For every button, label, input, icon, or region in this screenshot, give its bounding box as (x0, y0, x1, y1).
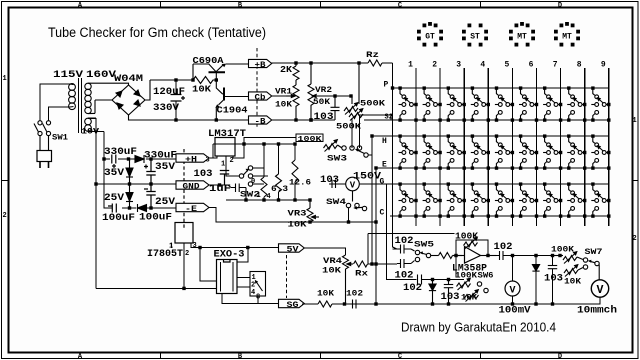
svg-text:GT: GT (425, 33, 435, 42)
svg-text:MT: MT (517, 33, 527, 42)
svg-text:+B: +B (255, 61, 266, 70)
svg-text:10mmch: 10mmch (577, 305, 617, 317)
pin column wire 8 (584, 68, 586, 226)
svg-text:D: D (558, 353, 562, 360)
bus H (372, 135, 609, 137)
tube socket MT (554, 22, 580, 47)
svg-text:1: 1 (408, 61, 413, 70)
svg-text:330uF: 330uF (144, 151, 177, 162)
wire 10V winding to doubler (96, 118, 176, 288)
svg-text:160V: 160V (86, 70, 116, 81)
bus P (393, 87, 609, 89)
tag GND (176, 181, 209, 192)
resistor to opamp (439, 253, 453, 259)
border tick sides (2, 180, 639, 182)
wire doubler rail bottom (104, 159, 176, 208)
svg-text:3: 3 (193, 242, 197, 250)
svg-text:6: 6 (529, 61, 534, 70)
wire matrix left vertical E down (375, 168, 377, 304)
switch SW1 (34, 121, 51, 136)
svg-text:Rz: Rz (366, 51, 379, 60)
pin column wire 7 (560, 68, 562, 226)
wire P feed vertical (393, 63, 398, 249)
svg-text:103: 103 (194, 169, 213, 180)
svg-text:500K: 500K (360, 100, 385, 109)
svg-text:115V: 115V (53, 70, 83, 81)
doubler junction dots (94, 78, 218, 209)
wire 5V to VR4 (304, 248, 346, 255)
wire heater feed y144 (213, 143, 295, 145)
svg-text:1: 1 (221, 161, 225, 169)
tag -B (249, 116, 272, 126)
wire -B rail y120 (271, 119, 335, 121)
wire sense y279.5 (416, 279, 464, 281)
bus G (387, 183, 609, 185)
svg-text:102: 102 (346, 290, 363, 299)
wire +B rail y63 (271, 62, 311, 64)
wire rail -B y120 (150, 119, 249, 121)
svg-text:25V: 25V (155, 197, 175, 208)
wire Cb rail y96 (271, 95, 286, 97)
svg-text:LM317T: LM317T (208, 129, 246, 140)
svg-text:P: P (384, 81, 389, 90)
svg-text:4: 4 (251, 289, 255, 297)
pin column wire 2 (439, 68, 441, 226)
capacitor 120uF 330V (171, 80, 186, 120)
diode D2 down (126, 159, 133, 184)
svg-text:100K: 100K (551, 246, 574, 255)
wire doubler rail top (104, 158, 176, 160)
svg-text:10K: 10K (317, 290, 334, 299)
svg-text:SG: SG (287, 301, 299, 310)
svg-text:Cb: Cb (255, 93, 266, 102)
potentiometer VR1 10K (293, 85, 299, 120)
svg-text:120uF: 120uF (153, 87, 185, 98)
svg-text:8: 8 (577, 61, 582, 70)
svg-text:EXO-3: EXO-3 (214, 250, 245, 261)
meter V 100mV (505, 256, 520, 305)
resistor Rx (354, 261, 368, 267)
diode D3 down lower (126, 184, 133, 208)
capacitor 100uF series bottom (108, 204, 116, 213)
svg-text:102: 102 (403, 283, 422, 294)
pin column wire 1 (415, 68, 417, 226)
wire y232 horizontal (368, 233, 455, 235)
svg-text:1: 1 (633, 117, 637, 125)
capacitor 330uF 35V series (112, 155, 116, 169)
svg-text:2: 2 (3, 212, 7, 220)
svg-text:5V: 5V (287, 245, 299, 254)
dashed separator line (256, 48, 258, 128)
wire bridge dc out (129, 80, 151, 120)
svg-text:2K: 2K (280, 65, 293, 75)
wire SW1 to transformer (40, 84, 65, 121)
svg-text:103: 103 (441, 292, 460, 303)
wire matrix left vertical G down (387, 184, 417, 280)
svg-text:3: 3 (456, 61, 461, 70)
svg-text:100uF: 100uF (139, 213, 172, 224)
potentiometer VR2 50K (308, 63, 314, 120)
svg-text:MT: MT (562, 33, 572, 42)
svg-text:12.6: 12.6 (289, 179, 311, 188)
resistor 100K boxed variable (296, 134, 323, 142)
svg-text:I7805T: I7805T (147, 249, 183, 260)
svg-text:10K: 10K (564, 278, 581, 287)
svg-text:-E: -E (185, 205, 197, 214)
svg-text:9: 9 (601, 61, 606, 70)
opamp LM358P (453, 247, 497, 264)
svg-text:2: 2 (633, 235, 637, 243)
svg-text:1: 1 (257, 192, 261, 200)
svg-text:Rx: Rx (355, 270, 368, 279)
resistor heater 6.3 (276, 144, 282, 200)
resistor 10K (193, 77, 216, 84)
diode clamp 2 (532, 256, 539, 305)
svg-text:2: 2 (432, 61, 437, 70)
svg-text:35V: 35V (104, 168, 124, 179)
wire transformer to bridge (93, 83, 129, 113)
svg-text:35V: 35V (155, 162, 175, 173)
tube socket GT (417, 22, 443, 47)
selector cells row H column 1-9 (398, 134, 610, 169)
wire matrix left vertical H down (371, 136, 373, 264)
pin column wire 3 (463, 68, 465, 226)
pin column wire 6 (536, 68, 538, 226)
wire GND rail to 1uF (209, 185, 231, 188)
wire +H to LM317 pin3 (209, 138, 296, 177)
pin column wire 4 (487, 68, 489, 226)
bus E (376, 167, 609, 169)
svg-text:SW7: SW7 (585, 248, 603, 257)
svg-text:4: 4 (480, 61, 485, 70)
svg-text:7: 7 (553, 61, 558, 70)
svg-text:ST: ST (470, 33, 480, 42)
bus S2 (364, 119, 609, 121)
svg-text:-B: -B (255, 117, 266, 126)
selector cells row G column 1-9 (398, 182, 610, 217)
svg-text:VR2: VR2 (315, 86, 332, 95)
bus C (390, 215, 609, 217)
dashed separator tags column (183, 149, 185, 228)
tag Cb (249, 92, 272, 102)
switch SW4 (346, 191, 366, 211)
tag +H (176, 154, 209, 165)
pin column wire 5 (511, 68, 513, 226)
tube socket MT (509, 22, 535, 47)
svg-text:C: C (398, 2, 402, 10)
wire EXO-3 to SG (222, 294, 279, 304)
border tick top (161, 2, 481, 8)
resistor 10K bottom (318, 301, 332, 307)
wire rail +raw y80 (150, 80, 249, 120)
wire LM317 pin1 adj (226, 156, 239, 176)
tag 5V (279, 244, 305, 255)
svg-text:SW1: SW1 (52, 134, 68, 143)
divider pin box 1 2 4 8 (237, 272, 266, 297)
svg-text:103: 103 (314, 112, 334, 123)
wire LM317 pin2 out (233, 138, 296, 159)
svg-text:Tube Checker for Gm check (Ten: Tube Checker for Gm check (Tentative) (48, 25, 266, 40)
svg-text:330uF: 330uF (104, 147, 137, 158)
dashed separator 5V/SG (286, 255, 288, 298)
switch SW2 (239, 166, 252, 186)
svg-text:10K: 10K (322, 267, 341, 276)
pin column numbers 1-9 (408, 61, 606, 70)
svg-text:VR3: VR3 (288, 210, 307, 219)
svg-text:VR1: VR1 (275, 88, 292, 97)
svg-text:10K: 10K (275, 101, 292, 110)
svg-text:2: 2 (185, 250, 189, 258)
svg-text:E: E (382, 161, 387, 170)
svg-text:5: 5 (504, 61, 509, 70)
svg-text:10K: 10K (192, 85, 212, 95)
svg-text:103: 103 (544, 274, 563, 285)
junction dots matrix left (357, 61, 394, 223)
tube socket ST (462, 24, 488, 47)
svg-text:GND: GND (183, 182, 200, 191)
svg-text:0: 0 (251, 178, 255, 186)
diode D1 right (135, 155, 144, 163)
resistor heater 1.4 (261, 144, 267, 200)
svg-text:C1904: C1904 (217, 106, 249, 116)
svg-text:50K: 50K (313, 98, 330, 107)
resistor Rz wire (311, 62, 393, 64)
svg-text:Drawn by GarakutaEn 2010.4: Drawn by GarakutaEn 2010.4 (401, 321, 556, 335)
svg-text:100K: 100K (298, 136, 323, 144)
svg-text:330V: 330V (153, 103, 179, 114)
junction dots heater (218, 142, 297, 201)
svg-text:100mV: 100mV (499, 306, 531, 317)
svg-text:SW5: SW5 (414, 241, 434, 250)
transformer T1 (65, 78, 104, 133)
pin column wire 9 (608, 68, 610, 226)
svg-text:500K: 500K (336, 123, 361, 132)
svg-text:SW4: SW4 (326, 198, 346, 207)
svg-text:1: 1 (3, 75, 7, 83)
svg-text:SW6: SW6 (478, 272, 494, 281)
AC plug (37, 136, 52, 168)
junction dots bottom (343, 254, 562, 306)
meter V 10mmch (553, 280, 609, 304)
svg-text:25V: 25V (104, 193, 124, 204)
svg-text:+H: +H (185, 155, 197, 164)
tag SG (279, 299, 305, 310)
capacitor 103 below VR2 (331, 96, 340, 120)
junction dots mid (294, 61, 352, 223)
wire SW3 common to H vertical (368, 154, 372, 156)
wire -E long y222 (209, 208, 376, 223)
selector cells row P column 1-9 (398, 86, 610, 121)
tag -E (176, 203, 209, 214)
svg-text:6.3: 6.3 (271, 185, 288, 194)
border tick bottom (161, 353, 481, 359)
wire doubler rail mid GND (96, 183, 176, 185)
diode D4 left (138, 204, 147, 212)
svg-text:C: C (398, 353, 402, 360)
tag +B (249, 59, 272, 69)
wire bottom heater rail y200 (226, 199, 310, 201)
svg-text:D: D (558, 2, 562, 10)
resistor Rz (368, 60, 382, 66)
switch SW3 (342, 146, 368, 157)
regulator I7805T (175, 223, 193, 244)
svg-text:150V: 150V (353, 172, 381, 183)
junction dots 7805 (182, 246, 249, 290)
svg-text:SW3: SW3 (327, 155, 347, 164)
svg-text:100uF: 100uF (102, 213, 135, 224)
resistor heater 12.6 (292, 144, 298, 200)
wire common bottom y304 (302, 303, 553, 305)
wire vertical x368 (367, 234, 369, 265)
resistor 2K (293, 63, 299, 85)
svg-text:102: 102 (395, 271, 414, 282)
wire E feed 150V (329, 183, 387, 185)
svg-text:VR4: VR4 (323, 257, 342, 266)
svg-text:H: H (382, 137, 387, 146)
diode clamp (429, 280, 436, 305)
svg-text:C: C (380, 209, 385, 218)
